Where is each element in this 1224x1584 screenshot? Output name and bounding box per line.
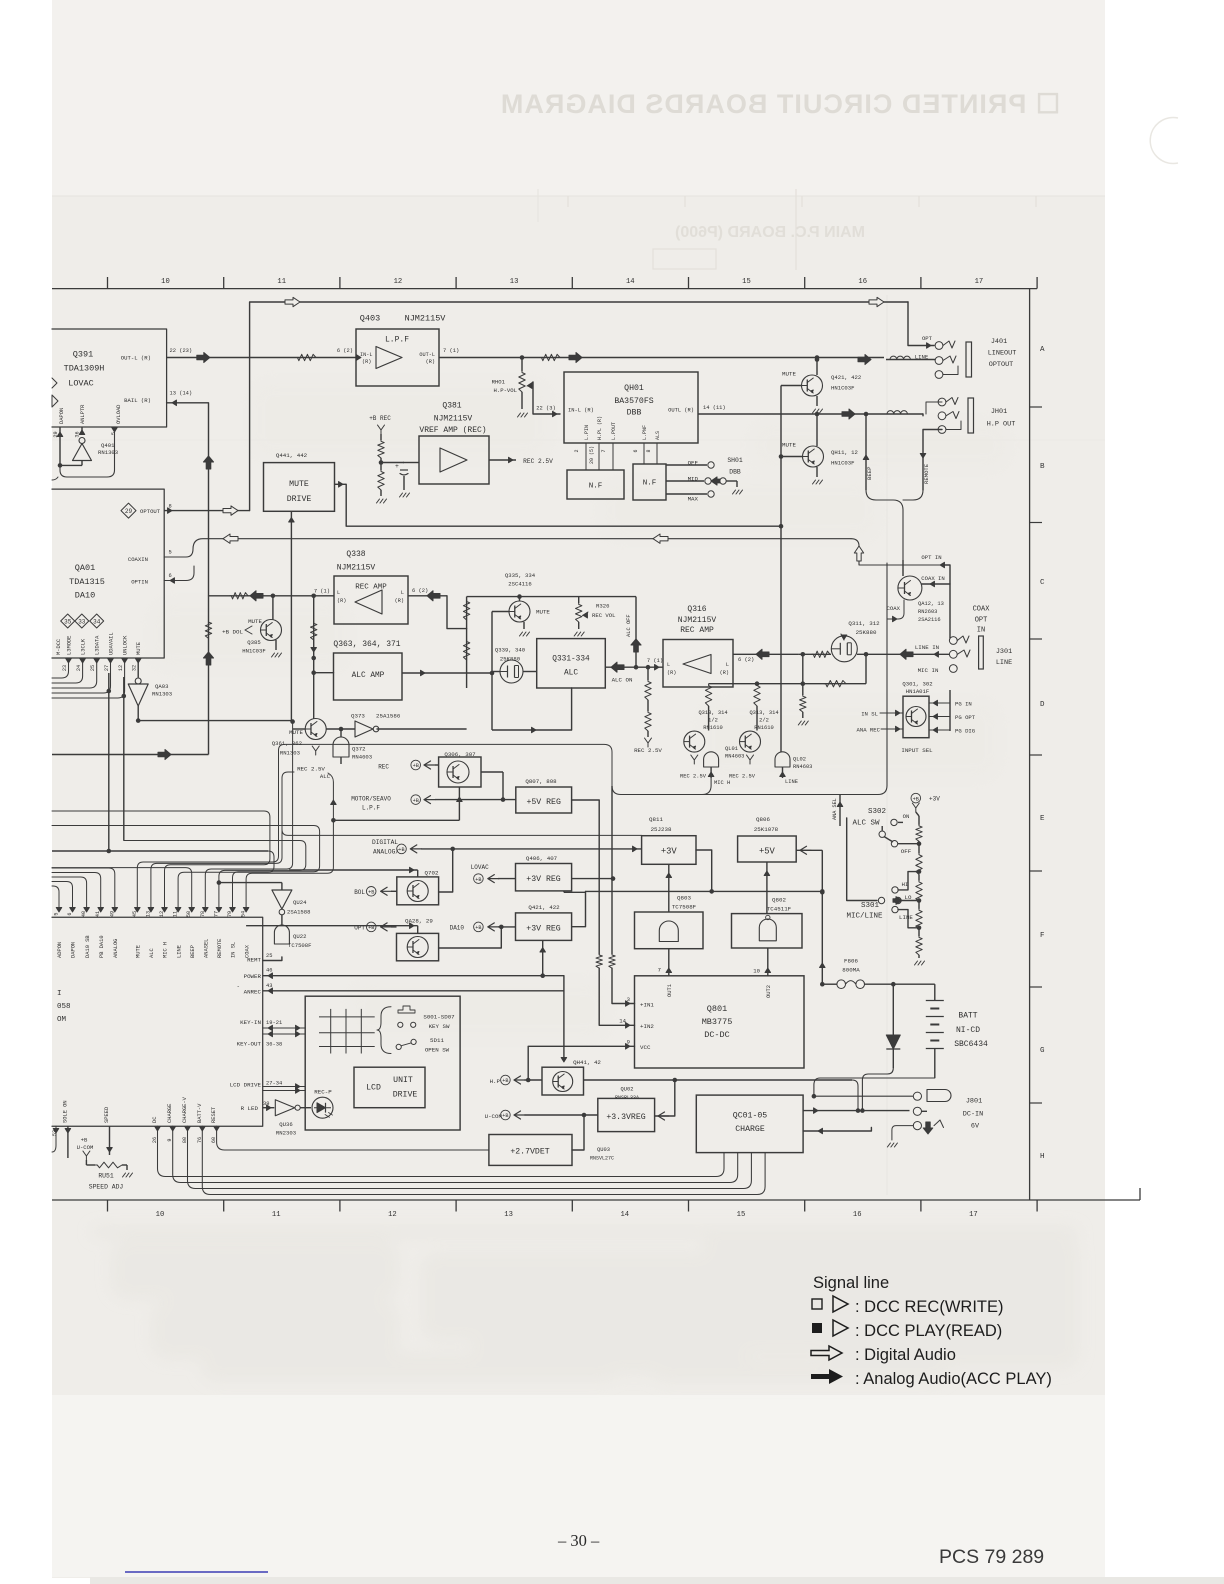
svg-text:: DCC PLAY(READ): : DCC PLAY(READ) <box>855 1322 1002 1340</box>
svg-text:Q372: Q372 <box>352 746 365 753</box>
svg-text:20 (5): 20 (5) <box>589 446 595 464</box>
svg-text:36-38: 36-38 <box>266 1042 282 1048</box>
svg-text:DAPON: DAPON <box>59 408 65 424</box>
svg-text:23: 23 <box>62 665 68 671</box>
svg-text:QU02: QU02 <box>621 1087 634 1093</box>
svg-text:Q385: Q385 <box>247 639 260 646</box>
svg-text:SBC6434: SBC6434 <box>954 1040 988 1049</box>
svg-text:VCC: VCC <box>640 1044 651 1051</box>
svg-text:27-34: 27-34 <box>266 1081 282 1087</box>
long verticals from upper left <box>108 673 110 851</box>
wire gate to out1 <box>668 949 670 976</box>
svg-text:6V: 6V <box>971 1123 980 1131</box>
svg-text:2/2: 2/2 <box>759 718 769 724</box>
svg-text:COAX: COAX <box>887 605 901 612</box>
wires KEY-IN KEY-OUT <box>263 1028 306 1034</box>
svg-text:LCD DRIVE: LCD DRIVE <box>230 1082 262 1089</box>
svg-text:QA03: QA03 <box>155 683 168 690</box>
svg-text:L.P.F: L.P.F <box>362 805 380 812</box>
svg-text:L.PNF: L.PNF <box>642 425 648 440</box>
wire RESET to +2.7VDET <box>217 1126 489 1150</box>
svg-text:F: F <box>1040 932 1045 940</box>
gate QU22 TC7508F <box>281 915 283 925</box>
svg-text:TDA1309H: TDA1309H <box>64 364 105 374</box>
svg-text:+: + <box>395 463 399 470</box>
transistor QH11 12 HN1C03F <box>803 446 824 467</box>
svg-text:ADPON: ADPON <box>57 942 63 958</box>
svg-text:MUTE: MUTE <box>248 618 262 625</box>
wire Q403 out to line path <box>439 357 884 359</box>
svg-text:HN1C03F: HN1C03F <box>242 648 266 655</box>
svg-text:QL01: QL01 <box>725 746 738 752</box>
svg-text:ALC: ALC <box>564 670 578 678</box>
block +2.7VDET <box>489 1135 572 1166</box>
svg-text:+B: +B <box>413 763 419 769</box>
wire mute line to Q361 <box>290 720 292 722</box>
svg-text:6 (2): 6 (2) <box>738 657 754 663</box>
svg-text:+3V: +3V <box>661 847 678 857</box>
wires LCD DRIVE <box>263 1087 306 1091</box>
svg-text:Q361, 362: Q361, 362 <box>272 740 302 747</box>
svg-text:OUTL (R): OUTL (R) <box>668 408 694 414</box>
svg-text:H.PL (R): H.PL (R) <box>597 416 603 440</box>
svg-text:IN-L: IN-L <box>360 352 372 358</box>
svg-text:QL02: QL02 <box>793 757 806 763</box>
svg-text:KEY-IN: KEY-IN <box>240 1019 261 1026</box>
riser pin 78 to mute node <box>205 722 292 910</box>
svg-text:-: - <box>237 983 240 990</box>
svg-text:UDAVAIL: UDAVAIL <box>109 632 115 655</box>
svg-text:15: 15 <box>742 278 751 286</box>
svg-text:S302: S302 <box>868 808 886 816</box>
svg-text:L.POUT: L.POUT <box>611 422 617 440</box>
svg-text:17: 17 <box>969 1211 978 1219</box>
svg-text:DAPON: DAPON <box>71 942 77 958</box>
svg-text:14: 14 <box>620 1211 629 1219</box>
svg-text:OPEN SW: OPEN SW <box>425 1047 450 1054</box>
svg-text:16: 16 <box>853 1211 862 1219</box>
svg-text:(R): (R) <box>337 598 346 604</box>
svg-text:(R): (R) <box>426 359 435 365</box>
diamonds 35 33 34 <box>61 614 75 628</box>
svg-text:H.P: H.P <box>490 1078 501 1085</box>
mute drive input riser <box>290 511 292 720</box>
svg-text:CHARGE: CHARGE <box>167 1104 173 1123</box>
svg-text:+B REC: +B REC <box>369 415 391 422</box>
block ALC AMP <box>334 653 403 700</box>
feedback bus line <box>709 683 866 685</box>
wire LINE IN <box>799 653 831 655</box>
svg-text:OVLOAD: OVLOAD <box>116 405 122 424</box>
svg-text:HN1A01F: HN1A01F <box>906 688 930 695</box>
svg-text:058: 058 <box>57 1003 71 1011</box>
svg-text:RN2603: RN2603 <box>918 609 937 615</box>
svg-text:L: L <box>726 662 729 668</box>
svg-text:OM: OM <box>57 1016 67 1024</box>
svg-text:25A1586: 25A1586 <box>376 713 401 720</box>
charge bus wires <box>158 1126 725 1176</box>
svg-text:Q803: Q803 <box>677 895 691 902</box>
svg-text:6 (2): 6 (2) <box>337 348 353 354</box>
svg-text:REC 2.5V: REC 2.5V <box>729 774 756 780</box>
svg-text:1/2: 1/2 <box>708 718 718 724</box>
svg-text:+3V REG: +3V REG <box>526 875 560 884</box>
svg-text:SOLE ON: SOLE ON <box>62 1100 68 1123</box>
svg-text:+B: +B <box>81 1137 88 1144</box>
svg-text:TC7508F: TC7508F <box>672 904 697 911</box>
svg-text:DA10: DA10 <box>450 925 465 932</box>
svg-text:NJM2115V: NJM2115V <box>337 564 376 573</box>
pot R326 REC VOL <box>578 597 580 603</box>
riser pin 11 joins bus851 <box>178 851 274 910</box>
svg-text:LINE: LINE <box>899 914 913 921</box>
svg-text:ALC OFF: ALC OFF <box>626 614 632 637</box>
svg-text:OPTOUT: OPTOUT <box>140 508 161 515</box>
svg-text:TC4511F: TC4511F <box>767 906 792 913</box>
svg-text:Q421, 422: Q421, 422 <box>831 374 861 381</box>
svg-text:UNLOCK: UNLOCK <box>123 635 129 655</box>
svg-text:I: I <box>57 990 62 998</box>
svg-text:BEEP: BEEP <box>866 466 873 480</box>
svg-text:RN4603: RN4603 <box>793 764 812 770</box>
svg-text:Q441, 442: Q441, 442 <box>276 452 308 459</box>
svg-text:DC: DC <box>152 1117 158 1123</box>
svg-text:Q807, 808: Q807, 808 <box>525 778 557 785</box>
block N.F 1 <box>567 470 624 499</box>
VREF left network <box>403 462 419 464</box>
svg-text:REMT: REMT <box>247 957 261 964</box>
svg-text:TC7508F: TC7508F <box>288 942 312 949</box>
svg-text:Q311, 312: Q311, 312 <box>848 620 880 627</box>
svg-text:32: 32 <box>132 665 138 671</box>
OPTIN wire <box>164 566 194 581</box>
wire Q306 emitter to bus <box>333 819 459 821</box>
svg-text:QU22: QU22 <box>293 933 306 940</box>
battery BATT NI-CD SBC6434 <box>934 984 936 1000</box>
mute bus vertical <box>780 386 782 753</box>
svg-text:JH01: JH01 <box>991 408 1007 416</box>
svg-text:Q391: Q391 <box>73 350 93 360</box>
svg-text:ANREC: ANREC <box>244 989 262 996</box>
svg-text:ALS: ALS <box>655 431 661 440</box>
svg-text:: Digital Audio: : Digital Audio <box>855 1346 956 1364</box>
riser pin 79 to left bus y825 <box>52 826 320 911</box>
svg-text:LOVAC: LOVAC <box>471 864 489 871</box>
svg-text:ALC AMP: ALC AMP <box>352 672 385 680</box>
gate Q372 RN4603 <box>333 737 349 757</box>
svg-text:MUTE: MUTE <box>782 442 796 449</box>
wire +5v reg out <box>572 800 600 954</box>
svg-text:8: 8 <box>646 449 652 452</box>
svg-text:2SC4116: 2SC4116 <box>508 581 532 588</box>
frame right border <box>1029 289 1031 1200</box>
svg-text:5: 5 <box>54 912 60 915</box>
svg-text:11: 11 <box>173 911 179 917</box>
svg-text:13 (14): 13 (14) <box>170 391 193 397</box>
svg-text:BEEP: BEEP <box>190 945 196 958</box>
wire Q702 base input <box>289 869 418 871</box>
svg-text:ALC SW: ALC SW <box>852 820 880 828</box>
svg-text:ALC ON: ALC ON <box>612 677 633 684</box>
svg-text:25K1078: 25K1078 <box>754 826 779 833</box>
svg-text:17: 17 <box>975 278 984 286</box>
resistor chain +3V <box>911 793 921 803</box>
svg-text:HN1C03F: HN1C03F <box>831 460 855 467</box>
svg-text:LINE IN: LINE IN <box>915 644 940 651</box>
svg-text:RESET: RESET <box>211 1106 217 1123</box>
svg-text:54: 54 <box>241 911 247 917</box>
svg-text:J801: J801 <box>966 1098 982 1106</box>
ghost mirrored header <box>500 89 1060 119</box>
riser bundle pins to mid-level buses <box>137 744 612 910</box>
svg-text:ANALOG/: ANALOG/ <box>373 849 399 856</box>
svg-text:Q313, 314: Q313, 314 <box>698 710 727 716</box>
wire +3v to gate <box>668 864 670 912</box>
svg-text:N.F: N.F <box>589 483 603 491</box>
svg-text:+3V REG: +3V REG <box>526 925 560 934</box>
svg-text:REC AMP: REC AMP <box>680 626 714 635</box>
svg-text:OPT: OPT <box>922 335 933 342</box>
svg-text:M-DCC: M-DCC <box>56 639 62 655</box>
svg-text:IN SL: IN SL <box>861 711 878 718</box>
svg-text:RN2303: RN2303 <box>276 1130 296 1137</box>
svg-text:L.P.F: L.P.F <box>385 336 409 345</box>
riser pin 77 to left bus y840 <box>124 841 306 911</box>
svg-text:U-COM: U-COM <box>77 1144 94 1151</box>
wire ALC ON <box>605 666 663 668</box>
svg-text:BOL: BOL <box>354 889 365 896</box>
svg-text:6: 6 <box>67 912 73 915</box>
svg-text:QU24: QU24 <box>293 899 307 906</box>
svg-text:Q381: Q381 <box>442 402 461 411</box>
svg-text:13: 13 <box>145 911 151 917</box>
svg-text:+B: +B <box>913 796 919 802</box>
svg-text:PB DA10: PB DA10 <box>99 935 105 958</box>
svg-text:10: 10 <box>753 968 760 975</box>
svg-text:IN-L (R): IN-L (R) <box>568 408 594 414</box>
inverter QU24 2SA1588 <box>219 882 282 884</box>
wire QH41 out to 3.3vreg and J801 <box>584 1079 853 1081</box>
svg-text:RN1303: RN1303 <box>98 449 118 456</box>
svg-text:OUT1: OUT1 <box>667 984 673 997</box>
svg-text:NJM2115V: NJM2115V <box>405 314 447 324</box>
IC microcontroller (cut at scan edge) <box>52 917 263 1126</box>
wire Q702 collector up <box>439 849 453 892</box>
wire anrec power row <box>564 891 586 893</box>
svg-text:(R): (R) <box>720 670 729 676</box>
svg-text:Q301, 302: Q301, 302 <box>902 681 932 688</box>
svg-text:12: 12 <box>388 1211 397 1219</box>
svg-text:QU03: QU03 <box>597 1147 610 1153</box>
svg-text:PG IN: PG IN <box>955 701 972 708</box>
svg-text:TDA1315: TDA1315 <box>69 577 105 587</box>
divider REC 2.5V under ALC ON <box>647 667 649 680</box>
wires BEEP REMOTE <box>865 414 867 490</box>
svg-text:Q363, 364, 371: Q363, 364, 371 <box>333 640 400 649</box>
svg-text:L: L <box>401 590 404 596</box>
svg-text:RNSVL27C: RNSVL27C <box>590 1156 614 1162</box>
svg-text:33: 33 <box>78 618 86 625</box>
svg-text:2SA2116: 2SA2116 <box>918 617 941 623</box>
transistor Q385 HN1C03F <box>272 596 274 620</box>
svg-text:MIC H: MIC H <box>163 942 169 958</box>
svg-text:BATT: BATT <box>958 1012 977 1021</box>
power rail y891 <box>586 890 823 892</box>
wire OUT-L to Q403 <box>167 357 356 359</box>
wire Q338 output <box>408 595 447 597</box>
svg-text:REMOTE: REMOTE <box>923 463 930 484</box>
svg-text:OUT-L: OUT-L <box>419 352 435 358</box>
svg-text:OFF: OFF <box>901 848 912 855</box>
svg-text:PCS 79 289: PCS 79 289 <box>939 1546 1044 1568</box>
resistor pair Q313 314 2/2 <box>754 684 760 706</box>
svg-text:Q401: Q401 <box>101 442 115 449</box>
svg-text:15: 15 <box>737 1211 746 1219</box>
svg-text:CHARGE-V: CHARGE-V <box>182 1096 188 1123</box>
svg-text:MUTE: MUTE <box>536 609 550 616</box>
svg-text:: DCC REC(WRITE): : DCC REC(WRITE) <box>855 1298 1003 1316</box>
svg-text:L: L <box>337 590 340 596</box>
svg-text:CHARGE: CHARGE <box>735 1125 765 1134</box>
riser pin 54 to ALC gate <box>246 773 333 910</box>
svg-text:R326: R326 <box>596 603 609 610</box>
svg-text:OUT-L (R): OUT-L (R) <box>121 355 151 362</box>
IC QH01 BA3570FS DBB <box>564 372 698 443</box>
svg-text:800MA: 800MA <box>842 967 860 974</box>
svg-text:SPEED: SPEED <box>104 1107 110 1123</box>
svg-text:LCD: LCD <box>366 1084 381 1093</box>
svg-text:H.P OUT: H.P OUT <box>987 421 1016 429</box>
svg-text:5: 5 <box>111 432 117 435</box>
svg-text:DRIVE: DRIVE <box>393 1091 418 1100</box>
svg-text:REC: REC <box>378 764 389 771</box>
svg-text:LOVAC: LOVAC <box>68 379 94 389</box>
svg-text:6 (2): 6 (2) <box>412 588 428 594</box>
svg-text:7: 7 <box>658 967 661 974</box>
jack J301 LINE <box>949 637 957 645</box>
jack JH01 HP OUT <box>938 398 946 406</box>
svg-text:DC-IN: DC-IN <box>963 1111 983 1119</box>
svg-text:6: 6 <box>169 573 172 579</box>
svg-text:QH41, 42: QH41, 42 <box>573 1059 601 1066</box>
IC Q801 MB3775 DC-DC <box>635 976 805 1068</box>
svg-text:Q421, 422: Q421, 422 <box>528 904 560 911</box>
svg-text:Q313, 314: Q313, 314 <box>749 710 778 716</box>
inverter QA03 RN1303 <box>137 658 139 678</box>
open switch symbol 5D11 <box>396 1044 401 1049</box>
OPTOUT wire with digital-audio arrows <box>121 503 136 518</box>
svg-text:DC-DC: DC-DC <box>704 1030 730 1040</box>
svg-text:LINE: LINE <box>176 945 182 958</box>
svg-text:RN1303: RN1303 <box>280 750 300 757</box>
svg-text:L3DATA: L3DATA <box>95 635 101 655</box>
svg-text:L: L <box>667 662 670 668</box>
transistor Q421 422 HN1C03F <box>802 375 823 396</box>
svg-text:– 30 –: – 30 – <box>557 1531 600 1550</box>
block LCD UNIT DRIVE <box>354 1067 425 1108</box>
svg-text:N.F: N.F <box>643 480 657 488</box>
svg-text:LINEOUT: LINEOUT <box>988 350 1017 358</box>
svg-text:LINE: LINE <box>996 659 1012 667</box>
svg-text:7 (1): 7 (1) <box>443 348 459 354</box>
svg-text:J401: J401 <box>991 338 1007 346</box>
svg-text:NJM2115V: NJM2115V <box>678 616 717 625</box>
svg-text:REC 2.5V: REC 2.5V <box>523 458 553 465</box>
svg-text:DRIVE: DRIVE <box>287 495 312 504</box>
divider under play line <box>313 596 315 658</box>
svg-text:(R): (R) <box>667 670 676 676</box>
svg-text:+IN2: +IN2 <box>640 1023 654 1030</box>
svg-text:50: 50 <box>186 911 192 917</box>
gate QL01 RN4603 <box>704 752 719 767</box>
svg-text:Q702: Q702 <box>425 870 439 877</box>
frame top ruler <box>52 288 1037 290</box>
svg-text:+3V: +3V <box>929 796 940 803</box>
power vertical x822 <box>821 850 823 984</box>
wire SPEED / RU51 <box>109 1126 111 1155</box>
inverter QU36 RN2303 <box>263 1107 275 1109</box>
wire ALC OFF <box>635 597 637 668</box>
wire H.P out path <box>698 413 923 415</box>
svg-text:RN4603: RN4603 <box>352 754 372 761</box>
svg-text:Q801: Q801 <box>707 1004 727 1014</box>
svg-text:SH01: SH01 <box>727 457 743 464</box>
svg-text:E: E <box>1040 815 1045 823</box>
svg-text:COAX: COAX <box>973 606 991 614</box>
svg-text:NJM2115V: NJM2115V <box>434 415 473 424</box>
svg-text:IN: IN <box>977 627 985 635</box>
svg-text:U-COM: U-COM <box>485 1113 503 1120</box>
svg-text:Q802: Q802 <box>772 897 786 904</box>
COAXIN wire <box>164 539 851 557</box>
svg-text:ANALOG: ANALOG <box>113 939 119 958</box>
svg-text:MOTOR/SEAVO: MOTOR/SEAVO <box>351 796 391 803</box>
svg-text:RN1303: RN1303 <box>152 691 172 698</box>
svg-text:REC 2.5V: REC 2.5V <box>634 747 662 754</box>
svg-text:6: 6 <box>633 449 639 452</box>
svg-text:(R): (R) <box>395 598 404 604</box>
wire mute tap row <box>467 596 636 598</box>
svg-text:7 (1): 7 (1) <box>314 589 330 595</box>
svg-text:46: 46 <box>266 968 272 974</box>
svg-text:24: 24 <box>76 665 82 671</box>
svg-text:COAXIN: COAXIN <box>128 556 148 563</box>
riser pin 12 to left bus <box>52 811 270 910</box>
svg-text:+2.7VDET: +2.7VDET <box>510 1148 549 1157</box>
svg-text:L.PIN: L.PIN <box>584 425 590 440</box>
svg-text:QU36: QU36 <box>279 1121 292 1128</box>
wire +5v to gate <box>766 862 768 914</box>
svg-text:12: 12 <box>394 278 403 286</box>
svg-text:5D11: 5D11 <box>430 1037 444 1044</box>
svg-text:MIC/LINE: MIC/LINE <box>846 913 883 921</box>
svg-text:D: D <box>1040 701 1045 709</box>
svg-text:Q316: Q316 <box>687 605 706 614</box>
svg-text:16: 16 <box>858 278 867 286</box>
key switch symbol S001-SD07 <box>398 1006 415 1013</box>
svg-text:L3CLK: L3CLK <box>81 638 87 655</box>
svg-text:QH11, 12: QH11, 12 <box>831 449 858 456</box>
svg-text:H: H <box>1040 1153 1045 1161</box>
svg-text:12: 12 <box>118 665 124 671</box>
riser pin 50 exits left <box>52 868 192 910</box>
svg-text:RHO1: RHO1 <box>492 379 506 386</box>
svg-text:ANA REC: ANA REC <box>857 727 881 734</box>
svg-text:11: 11 <box>277 278 286 286</box>
svg-text:34: 34 <box>93 618 101 625</box>
svg-text:MUTE: MUTE <box>782 371 796 378</box>
svg-text:ANASEL: ANASEL <box>204 939 210 958</box>
